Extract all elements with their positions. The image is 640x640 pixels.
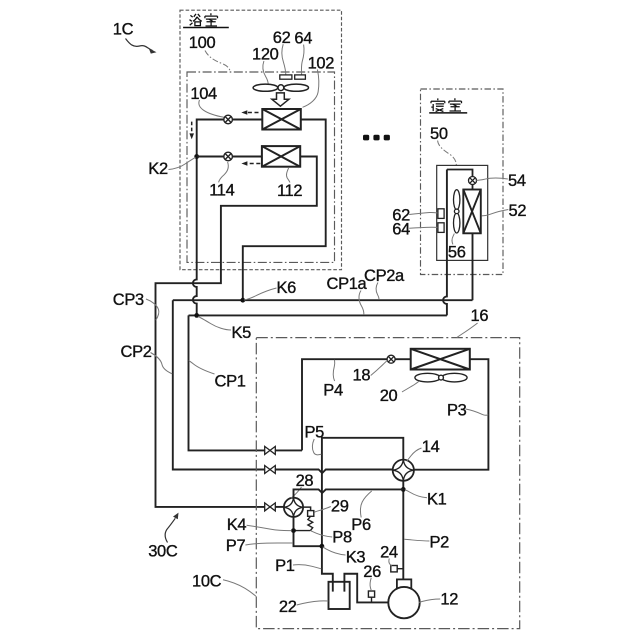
svg-text:K6: K6 [277,279,297,297]
svg-text:54: 54 [508,172,526,190]
bedroom unit outer box (dash-dot) [421,89,504,275]
leader K2 [169,157,196,169]
bathroom unit outer box (dash-dot) [180,10,342,270]
heat exchanger 16 coil (HX3) [411,349,470,370]
underline for 寝室 [429,112,467,114]
wire valve114 to K2 [197,156,224,158]
fan 120 [253,84,308,91]
svg-text:102: 102 [308,55,335,73]
sensor 24 square [391,566,397,572]
node K5 [194,313,199,318]
leader CP2a [376,283,379,300]
leader 50 (dash-dot) [438,141,457,166]
fan 56 (two vertical blades) [454,190,460,233]
heat exchanger 112 (HX2) [262,146,300,167]
node K1 [401,487,406,492]
leader K3 [323,547,346,555]
node K6 [240,298,245,303]
CP1a horizontal line [189,314,447,316]
leader K5 [198,317,231,331]
leader 20 [402,381,419,392]
leader P3 [466,409,489,415]
arrow 1C [126,39,153,51]
svg-text:104: 104 [190,85,217,103]
bowtie valve on CP1 line [265,446,276,454]
wire valve28 top to node K1 (dip under suction riser) [294,489,404,497]
leader 54 [476,178,507,180]
svg-text:120: 120 [252,46,279,64]
svg-text:P4: P4 [323,382,343,400]
wire CP2 line to 4way valve 14 left (dip under riser) [275,470,393,474]
expansion valve 18 [387,355,395,363]
flow dashed arrow vertical (down) [191,122,193,135]
label 寝室 (bedroom) [431,98,445,111]
wire HX1-left to valve 104 [232,119,262,121]
svg-text:K4: K4 [227,516,247,534]
sensor 64 rect (bedroom) [438,223,444,233]
wire valve28 bottom through node K4 to node K3 [294,517,322,546]
svg-text:P1: P1 [275,557,295,575]
capillary branch joins at K4 [294,530,311,532]
expansion valve 54 [469,177,477,185]
leader 26 [370,578,371,591]
svg-text:P3: P3 [447,402,467,420]
wire valve18 row to CP1 riser corner [302,359,387,450]
leader K1 [405,490,427,498]
compressor 12 body [388,587,419,618]
stub sensor 26 to suction pipe [371,597,373,602]
heat exchanger 102 (HX1) [262,109,301,130]
node K4 [291,528,296,533]
leader 114 [219,162,229,182]
flow dashed arrow row2 [246,163,260,165]
svg-text:16: 16 [471,307,489,325]
svg-text:62: 62 [273,29,291,47]
svg-text:P2: P2 [430,534,450,552]
svg-text:50: 50 [430,125,448,143]
pipe loop top inside bedroom unit [447,170,473,177]
label 浴室 (bathroom) [190,14,202,26]
wire HX2-left to valve 114 [232,156,262,158]
leader K6 [244,288,277,300]
arrow 30C [165,518,175,542]
CP2a horizontal line [173,299,473,301]
svg-text:P7: P7 [226,537,246,555]
bowtie valve on CP3 line [265,503,276,511]
CP1 riser (down to bowtie1 line) [189,315,265,450]
svg-text:K5: K5 [232,324,252,342]
svg-text:P8: P8 [332,529,352,547]
leader 24 [389,559,392,566]
leader P6 [360,491,371,518]
leader CP1 [189,360,215,374]
svg-text:CP3: CP3 [113,291,144,309]
leader 10C [223,580,256,596]
svg-text:112: 112 [277,182,302,200]
leader 62 [282,44,286,74]
suction loop: valve14 top to riser and down to K3/accumulator [322,438,403,592]
stub valve28 right to sensor 29 [303,507,311,511]
leader P2 [404,539,429,541]
leader 120 [263,61,268,84]
wire valve104 to left corner, down through K2 to K5 (hops left at 283.2 and 299.8) [193,120,224,316]
leader 18 [371,360,388,375]
outdoor unit box 16 (dash-dot) [256,338,519,629]
four-way valve 14 [393,460,414,481]
svg-text:CP2: CP2 [121,343,152,361]
stub sensor 24 to discharge pipe [397,568,403,570]
svg-text:29: 29 [331,498,349,516]
svg-text:30C: 30C [148,542,178,560]
svg-text:CP2a: CP2a [364,267,405,285]
leader 29 [314,507,331,513]
node K3 [320,544,325,549]
leader 12 [419,599,440,603]
leader P8 [311,531,332,537]
svg-text:CP1: CP1 [215,373,246,391]
leader P1 [293,565,321,569]
svg-text:P6: P6 [351,516,371,534]
accumulator inlet pipe (inside tank) [332,582,334,592]
leader P7 [245,543,292,545]
leader 104 [199,100,224,117]
svg-text:10C: 10C [192,572,222,590]
expansion valve 114 [224,152,233,161]
leader CP3 [146,299,159,320]
svg-text:28: 28 [296,472,314,490]
heat exchanger 52 [463,190,481,234]
svg-text:52: 52 [509,202,527,220]
leader 100 (dash-dot) [205,51,230,72]
svg-text:64: 64 [392,220,410,238]
svg-text:56: 56 [448,244,466,262]
svg-text:P5: P5 [305,424,325,442]
bedroom left pipe down to CP1a line (hop left at 300.2) [443,170,447,316]
leader P4 [333,360,335,381]
bowtie valve on CP2 line [265,466,276,474]
svg-text:22: 22 [279,598,297,616]
leader 22 [297,601,329,605]
leader K4 [247,525,292,530]
wire HX1-right loop down to node K6 [243,120,326,300]
leader 14 [407,448,422,461]
accumulator outlet pipe to compressor suction [344,574,388,603]
leader P5 [312,439,321,455]
underline for 浴室 [183,27,229,29]
leader 64 bedroom [409,227,437,228]
expansion valve 104 [224,115,233,124]
wire valve14 bottom through K1 down to compressor [402,481,404,580]
node K2 (junction dot) [194,154,199,159]
svg-text:26: 26 [363,563,381,581]
fan 20 [415,373,467,382]
sensor 26 square [368,591,374,597]
wire valve54 to HX52 top [472,185,474,190]
leader 16 [457,323,478,338]
leader 52 [482,210,509,216]
four-way valve 28 [284,498,303,517]
sensor 64 rect (bathroom) [295,75,306,79]
svg-text:K2: K2 [148,160,168,178]
svg-text:18: 18 [353,367,371,385]
svg-text:CP1a: CP1a [327,275,368,293]
wire bowtie3 to valve 28 [275,506,284,508]
flow dashed arrow row1 [246,112,259,114]
leader 102 [303,70,319,108]
leader 64 [301,45,304,75]
leader 62 bedroom [409,212,437,214]
svg-text:100: 100 [189,34,216,52]
leader CP2 [151,353,173,374]
leader 112 [286,168,289,183]
wire bowtie1 to valve18 riser [275,449,302,451]
svg-text:12: 12 [440,591,458,609]
compressor 12 inlet rect [397,579,411,589]
airflow arrow (hollow, down) [272,93,289,106]
sensor 62 rect (bathroom) [280,75,292,79]
svg-text:14: 14 [422,438,440,456]
bedroom right pipe (HX52 bottom) down to CP2a line [472,233,474,300]
svg-text:20: 20 [380,387,398,405]
wire HX2-right loop to CP3 riser [156,157,317,507]
capillary zigzag from sensor 29 to K4 branch [308,516,313,530]
leader 28 [291,487,302,498]
bathroom indoor-unit inner box 100 (dash-dot) [187,72,335,262]
leader 56 [452,234,454,245]
accumulator 22 tank [329,582,350,609]
wire HX3-right down to 4way valve 14 (P3 line) [414,359,489,470]
CP2 riser (down to bowtie2 line) [173,300,265,469]
leader CP1a [359,291,364,315]
ellipsis dots between rooms [363,135,390,141]
svg-text:1C: 1C [113,21,134,39]
wire valve18 to HX3 [395,358,411,360]
svg-text:114: 114 [209,181,234,199]
sensor 62 rect (bedroom) [438,209,444,219]
svg-text:K1: K1 [427,490,447,508]
sensor 29 square [308,511,314,517]
bedroom indoor-unit inner box 50 [437,165,488,260]
